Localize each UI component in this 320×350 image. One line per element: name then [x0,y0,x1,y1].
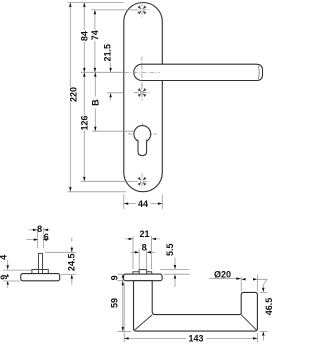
dimension 21.5 [102,44,112,100]
backplate (front view, 44x220 stadium) [124,3,163,192]
boss side nubs [133,272,152,274]
rose (profile) [124,274,163,281]
svg-text:Ø20: Ø20 [214,269,231,279]
screw 2 (below hub) [134,85,150,101]
dimension 59 [110,281,132,332]
lever end inner arc [258,66,259,79]
miter line at return end [241,315,257,331]
dimension diameter 20 [209,269,267,291]
extension line plate bottom [68,191,127,193]
spindle tube (8 mm) [37,228,43,249]
svg-text:24.5: 24.5 [67,254,77,272]
svg-text:220: 220 [69,87,79,102]
extension line plate top [68,2,124,4]
miter line at elbow [134,315,152,331]
dimension 46.5 [260,285,274,341]
svg-text:21: 21 [139,229,149,239]
extension line top screw center [91,9,136,11]
svg-text:6: 6 [44,232,49,242]
svg-text:143: 143 [188,334,203,344]
dimension 9 (rose height, right view) [110,274,124,281]
dimension 44 [124,195,163,210]
centerline vertical through hub and screw 2 [141,57,143,101]
dimension 143 [124,284,257,344]
extension line hub center [81,71,124,73]
svg-text:46.5: 46.5 [264,298,274,316]
rose (side view) [21,274,60,281]
spindle boss on rose [139,270,146,275]
svg-text:84: 84 [80,31,90,41]
svg-text:126: 126 [80,115,90,130]
svg-text:74: 74 [90,30,100,40]
svg-text:21.5: 21.5 [102,44,112,62]
screw 1 (top) [134,2,150,18]
dimension 4 (collar height) [0,255,32,277]
dimension 8 (spindle, right view) [131,243,156,270]
svg-text:44: 44 [138,199,148,209]
handle body (neck, grip bar, return end) [134,281,258,331]
dimension 24.5 [45,238,77,285]
svg-text:8: 8 [142,243,147,253]
extension line screw 2 center [107,92,124,94]
dimension 6 (left view) [26,232,49,242]
svg-text:B: B [91,99,101,106]
dimension 8 (left view) [29,224,50,234]
dimension 21 [125,229,160,269]
euro profile cylinder hole [128,123,157,156]
svg-text:9: 9 [0,275,9,280]
dimension B [91,72,101,131]
dimension 126 [80,72,90,181]
extension line bottom screw center [81,180,134,182]
dimension 74 [90,10,100,72]
extension line cylinder center [92,130,134,132]
lever handle (front view, stadium bar with hub cap) [134,64,263,80]
svg-text:59: 59 [110,298,120,308]
svg-text:5.5: 5.5 [165,243,175,256]
collar [32,270,48,274]
svg-text:4: 4 [0,255,9,260]
svg-text:8: 8 [37,224,42,234]
screw 3 (bottom) [134,173,150,189]
centerline horizontal through hub [125,71,161,73]
dimension 9 (rose height, left view) [0,275,21,288]
dimension 84 [80,3,90,73]
dimension 5.5 [160,243,190,287]
dimension 220 [69,3,79,192]
spindle (6 mm) [38,253,42,269]
svg-text:9: 9 [110,275,120,280]
